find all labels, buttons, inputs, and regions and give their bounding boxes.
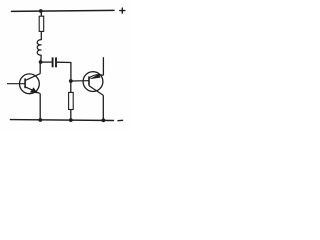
plus supply label xyxy=(120,8,125,13)
wire: top positive supply rail xyxy=(12,10,115,11)
node A: junction dot top rail / R1 xyxy=(39,9,43,13)
wire: Q2 emitter stub upward xyxy=(102,57,104,75)
node B: junction dot inductor/capacitor/Q1 collector xyxy=(39,60,43,64)
wire: capacitor to corner xyxy=(57,61,71,63)
wire: inductor bottom lead xyxy=(40,55,43,62)
background xyxy=(0,0,132,130)
wire: Q1 collector up to node B xyxy=(39,62,41,74)
resistor R2 xyxy=(69,92,74,109)
minus supply label xyxy=(118,119,123,121)
wire: Q1 base input lead xyxy=(7,83,25,85)
node F: junction dot Q2 collector / bottom rail xyxy=(102,118,106,122)
wire: Q2 collector down to bottom rail xyxy=(102,95,104,120)
node C: junction dot Q2 base tee xyxy=(69,79,73,83)
wire: Q1 emitter down to bottom rail xyxy=(39,93,41,120)
wire: node B to capacitor xyxy=(41,61,52,63)
wire: R1 top lead xyxy=(40,11,42,16)
transistor Q2 xyxy=(83,72,103,96)
wire: node C to Q2 base bar xyxy=(71,80,89,82)
resistor R1 xyxy=(39,16,44,31)
capacitor C1 xyxy=(53,57,56,67)
wire: node C down to R2 xyxy=(70,81,72,93)
wire: R1 bottom lead xyxy=(40,31,42,40)
node E: junction dot Q1 emitter / bottom rail xyxy=(38,118,42,122)
inductor L1 xyxy=(37,40,41,55)
wire: bottom negative supply rail xyxy=(10,119,113,122)
transistor Q1 xyxy=(20,74,41,94)
wire: corner down to node C xyxy=(70,62,72,81)
wire: R2 bottom lead xyxy=(70,110,72,121)
node D: junction dot R2 / bottom rail xyxy=(69,118,73,122)
